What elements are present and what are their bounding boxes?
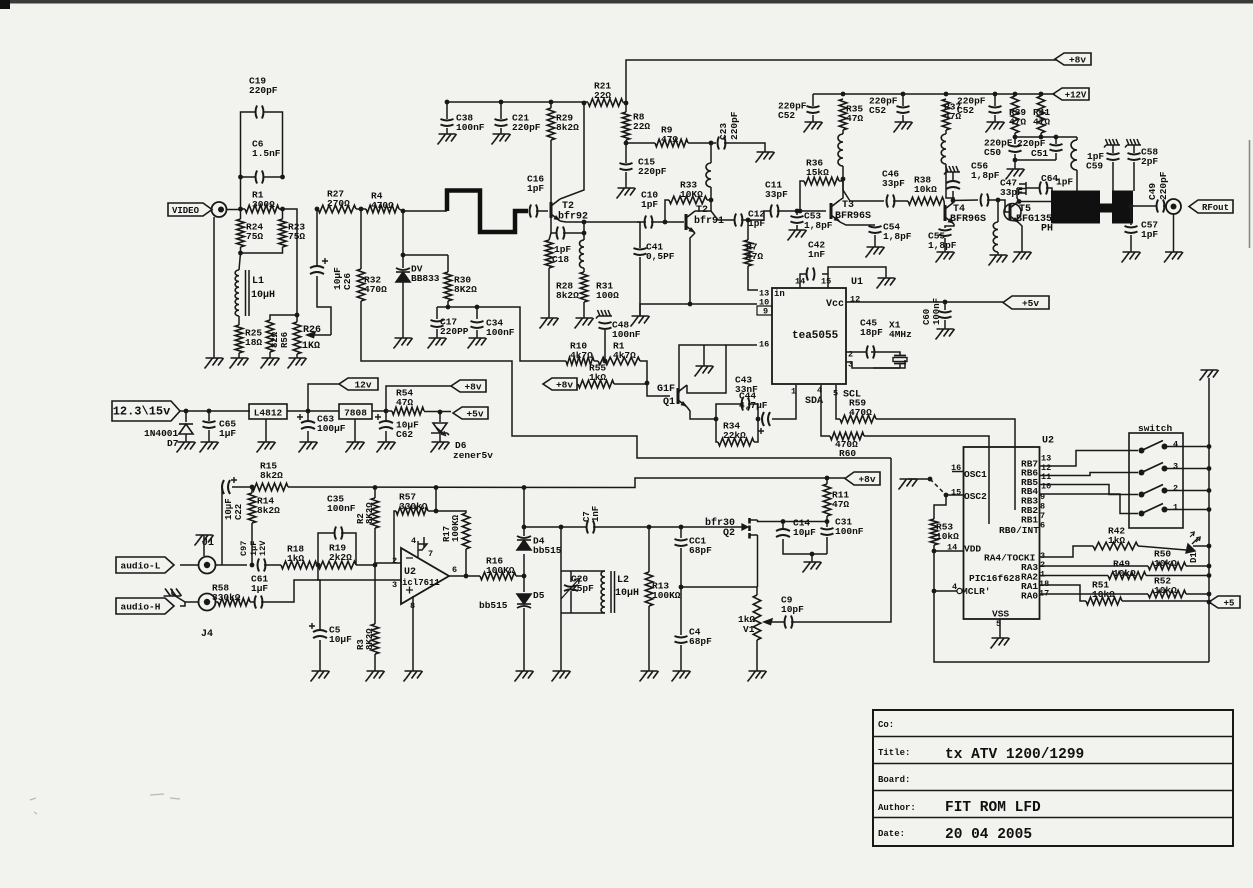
capacitor C47 33pF (981, 194, 989, 207)
ground J1 (195, 535, 214, 546)
svg-text:C60: C60 (922, 309, 932, 325)
svg-text:2: 2 (1173, 484, 1178, 494)
svg-text:100KΩ: 100KΩ (652, 590, 681, 601)
video pulse shape (447, 191, 528, 233)
svg-text:1,8pF: 1,8pF (928, 240, 957, 251)
wire SCL to RB2 (876, 419, 1015, 510)
junction (943, 300, 948, 305)
svg-text:U2: U2 (1042, 436, 1054, 447)
capacitor C56 1.8pF (946, 181, 960, 189)
junction (1129, 204, 1134, 209)
wire R57 to R17 (428, 511, 466, 513)
wire C9 to video line (791, 458, 891, 622)
transistor T5 circle (1004, 204, 1021, 221)
scan border top (0, 0, 1253, 4)
wire C18 left (551, 218, 556, 233)
wire gnd stub (703, 345, 705, 366)
wire (626, 142, 655, 144)
wire C64 left (1017, 187, 1022, 189)
video jack (212, 202, 227, 217)
wire X1 top (871, 352, 900, 356)
capacitor C49 220pF (1157, 200, 1165, 213)
svg-text:330kΩ: 330kΩ (399, 501, 428, 512)
transistor T4 BFR96S (945, 202, 954, 224)
svg-text:+8v: +8v (1069, 55, 1086, 66)
svg-text:68pF: 68pF (689, 636, 712, 647)
capacitor C60 100nF (939, 311, 952, 318)
ground R3 (366, 671, 385, 682)
resistor R57 330k (396, 507, 428, 515)
ground C65 (200, 442, 219, 453)
node supply 12v (339, 378, 378, 390)
resistor R49 10k (1108, 572, 1146, 580)
capacitor C14 10uF (776, 529, 790, 537)
wire sw 2 out (1183, 490, 1209, 492)
wire C11 to T3 (777, 210, 826, 212)
svg-text:OSC2: OSC2 (964, 491, 987, 502)
junction (756, 417, 761, 422)
junction (1013, 135, 1018, 140)
wire T4 emitter (945, 224, 954, 228)
wire (747, 220, 749, 240)
svg-text:10kΩ: 10kΩ (936, 531, 959, 542)
svg-text:RA0: RA0 (1021, 591, 1038, 602)
wire R13 top (648, 527, 650, 572)
ground C63 (299, 442, 318, 453)
junction (1207, 466, 1212, 471)
wire R32 top (360, 209, 362, 269)
wire (250, 601, 254, 603)
svg-text:8k2Ω: 8k2Ω (260, 470, 283, 481)
wire SDA to RB1 (864, 436, 989, 524)
ground C60 (936, 329, 955, 340)
ground C52c (986, 122, 1005, 133)
wire audio-L in (180, 564, 198, 566)
node supply +8v top (1055, 53, 1091, 65)
junction (1013, 92, 1018, 97)
wire (994, 115, 996, 122)
wire SDA down (821, 385, 830, 436)
svg-text:8: 8 (1040, 502, 1045, 512)
svg-text:220pF: 220pF (249, 85, 278, 96)
capacitor C17 220PP (431, 320, 444, 327)
wire (1014, 160, 1016, 169)
wire VDD (934, 550, 964, 552)
core L2 (611, 571, 615, 613)
ground RFout (1164, 252, 1183, 263)
wire R42 to D1 (1138, 546, 1186, 550)
wire sw 3 out (1183, 468, 1209, 470)
wire C64 to stripline (1046, 188, 1052, 193)
capacitor C23 220pF (718, 137, 726, 150)
junction (901, 92, 906, 97)
wire RA1 (1040, 585, 1087, 601)
ground U1 (877, 278, 896, 289)
wire (549, 233, 551, 240)
ground OSC (899, 479, 918, 490)
wire (241, 112, 256, 209)
svg-text:10µF: 10µF (793, 527, 816, 538)
capacitor C55 1.8pF (939, 229, 952, 236)
wire pin7 stub (423, 537, 425, 548)
capacitor C62 10uF (379, 421, 393, 429)
capacitor C38 100nF (441, 119, 454, 126)
wire C22 to R15 (232, 486, 252, 488)
wire D7 (185, 411, 187, 422)
ground V1 (748, 671, 767, 682)
wire D5 top (523, 576, 525, 592)
wire (536, 210, 548, 212)
svg-text:1.5nF: 1.5nF (252, 148, 281, 159)
svg-text:10: 10 (1041, 482, 1051, 492)
wire to C12 (711, 211, 734, 220)
wire to pin10 (690, 303, 757, 305)
wire (826, 478, 828, 484)
svg-text:MCLR': MCLR' (962, 586, 991, 597)
wire (402, 255, 404, 268)
svg-text:VIDEO: VIDEO (172, 206, 200, 216)
feedthrough C48 (596, 310, 612, 319)
wire rail tap (435, 488, 437, 512)
wire (1122, 600, 1209, 602)
wire (583, 233, 585, 240)
svg-text:C26: C26 (342, 273, 353, 290)
wire MCLR (934, 590, 957, 592)
wire (944, 320, 946, 329)
resistor R25 18 (235, 325, 243, 353)
capacitor C41 0.5pF (634, 248, 647, 255)
resistor R41 47 (1037, 96, 1045, 133)
wire (447, 301, 449, 307)
transistor T3 BFR96S (831, 200, 840, 222)
wire (707, 199, 711, 201)
wire (625, 140, 627, 163)
wire (563, 232, 584, 234)
switch pole 3 (1139, 470, 1145, 476)
ground C4 (672, 671, 691, 682)
svg-text:D5: D5 (533, 590, 545, 601)
switch box (1129, 433, 1183, 528)
svg-text:bfr91: bfr91 (694, 215, 724, 227)
capacitor C9 10pF (785, 616, 793, 629)
wire (1112, 145, 1114, 153)
wire pin16 to Q1 (687, 345, 757, 393)
wire (614, 383, 647, 385)
wire VSS gnd (999, 619, 1001, 638)
wire (241, 176, 256, 178)
svg-text:20 04 2005: 20 04 2005 (945, 827, 1032, 843)
capacitor C18 1pF (557, 227, 565, 240)
ground C38 (438, 134, 457, 145)
node supply +5v pwr (453, 407, 488, 419)
wire (1130, 235, 1132, 252)
wire rail bottom (1208, 602, 1210, 662)
capacitor C10 1pF (645, 216, 653, 229)
wire bottom rail (934, 545, 1209, 662)
wire (356, 208, 366, 210)
junction (582, 101, 587, 106)
wire gnd stub C14 (811, 554, 813, 562)
resistor R17 100K (462, 513, 470, 549)
wire (812, 115, 814, 122)
node supply +8v audio (845, 472, 880, 485)
wire video to modulator (361, 301, 891, 458)
wire (1026, 187, 1040, 189)
pin MCLR circle (957, 588, 962, 593)
wire C47 to T5 (987, 200, 1009, 212)
wire RA2 (1040, 575, 1109, 577)
svg-text:R56: R56 (280, 332, 290, 348)
svg-text:22Ω: 22Ω (594, 90, 611, 101)
inductor L7 (1071, 140, 1077, 170)
junction (401, 253, 406, 258)
wire pin15 to gnd (828, 267, 886, 278)
wire J4 gnd stub (172, 589, 185, 602)
junction (184, 409, 189, 414)
wire C35 left (318, 533, 334, 565)
wire pin14 (800, 274, 806, 288)
junction (295, 313, 300, 318)
wire DV top (403, 211, 448, 255)
op-amp U2 icl7611 (401, 548, 449, 604)
svg-text:7: 7 (1040, 511, 1045, 521)
wire emitter gnd (640, 304, 690, 316)
junction (280, 175, 285, 180)
junction (624, 101, 629, 106)
svg-text:OSC1: OSC1 (964, 469, 987, 480)
diode DV BB833 (396, 268, 410, 282)
svg-text:33pF: 33pF (882, 178, 905, 189)
wire (238, 353, 240, 358)
svg-text:1,8pF: 1,8pF (804, 220, 833, 231)
resistor R1 300 (245, 205, 279, 213)
junction (522, 525, 527, 530)
svg-text:4: 4 (411, 536, 416, 546)
capacitor C4 68pF (675, 636, 688, 643)
wire (436, 307, 438, 319)
junction (825, 476, 830, 481)
wire (796, 211, 798, 215)
svg-text:15: 15 (821, 277, 831, 287)
svg-text:Q2: Q2 (723, 528, 735, 539)
junction (306, 409, 311, 414)
wire R34 loop top (716, 404, 741, 419)
wire R2 top (374, 488, 376, 499)
resistor R51 10k (1086, 597, 1122, 605)
capacitor C58 2pF (1128, 153, 1141, 160)
junction (709, 141, 714, 146)
svg-text:12.3\15v: 12.3\15v (113, 405, 171, 419)
junction (795, 209, 800, 214)
wire (756, 587, 758, 595)
junction (1207, 600, 1212, 605)
svg-text:in: in (774, 289, 785, 299)
ground 7808 (346, 442, 365, 453)
wire C65 (208, 411, 210, 421)
wire T3 out (843, 179, 884, 201)
capacitor C50 220pF (1009, 145, 1022, 152)
svg-text:7: 7 (428, 549, 433, 559)
wire C26 top (316, 209, 318, 266)
junction (781, 519, 786, 524)
wire (583, 302, 585, 318)
resistor R31 100 (580, 272, 588, 302)
wire T5 emitter (1019, 223, 1022, 252)
svg-text:C52: C52 (869, 105, 886, 116)
svg-text:16: 16 (759, 340, 769, 350)
svg-text:Title:: Title: (878, 748, 910, 758)
ground R25 (230, 358, 249, 369)
stripline block 1 (1051, 191, 1100, 224)
wire SCL down (836, 385, 840, 419)
junction (238, 175, 243, 180)
junction (434, 509, 439, 514)
wire OSC2 in (946, 494, 964, 496)
wire (625, 172, 627, 188)
diode D5 bb515 (517, 594, 531, 608)
wire (476, 330, 478, 338)
junction (647, 525, 652, 530)
junction (559, 525, 564, 530)
wire (307, 431, 309, 442)
wire (583, 222, 585, 233)
wire C20 bottom (570, 591, 572, 613)
wire (625, 103, 627, 112)
svg-text:BB833: BB833 (411, 273, 440, 284)
wire (1186, 593, 1209, 595)
svg-text:100µF: 100µF (317, 423, 346, 434)
node supply +12V (1053, 88, 1089, 100)
wire C31 (826, 522, 828, 528)
wire R4 to pulse (399, 209, 447, 211)
junction (679, 585, 684, 590)
junction (238, 207, 243, 212)
junction (359, 207, 364, 212)
ground D7 (177, 442, 196, 453)
svg-text:8K2Ω: 8K2Ω (454, 284, 477, 295)
wire T3 collector (840, 179, 843, 200)
wire pin8 gnd (412, 596, 414, 671)
wire to R53 (934, 495, 946, 519)
wire (756, 640, 758, 671)
resistor R35 47 (839, 99, 847, 130)
wire (637, 221, 646, 223)
junction (944, 493, 949, 498)
feedthrough C59 (1104, 139, 1120, 148)
ground C5 (311, 671, 330, 682)
junction (522, 485, 527, 490)
wire (402, 282, 404, 338)
wire (1133, 145, 1135, 153)
inductor L2 (601, 571, 605, 613)
scan page edge (1249, 140, 1251, 248)
ic 7808 (339, 404, 372, 419)
resistor R19 2k2 (318, 561, 356, 569)
capacitor C15 220pF (620, 163, 633, 170)
wire R29 to T2 base (550, 140, 552, 209)
capacitor C22 10uF (222, 480, 230, 494)
wire (754, 419, 758, 442)
wire RB7 sw4 (1040, 451, 1139, 467)
wire pin3 (846, 362, 900, 368)
wire X1 bottom (899, 364, 901, 369)
svg-text:audio-L: audio-L (121, 561, 161, 572)
svg-text:12: 12 (850, 295, 860, 305)
wire (1076, 137, 1078, 140)
svg-text:L1: L1 (252, 276, 264, 287)
capacitor C57 1pF (1125, 226, 1138, 233)
ic U2 PIC16f628 (964, 447, 1040, 619)
junction (207, 409, 212, 414)
junction (445, 100, 450, 105)
wire pin2 riser (394, 511, 396, 563)
capacitor CC1 68pF (675, 539, 688, 546)
wire to C7 (524, 526, 586, 528)
node supply +5 (1209, 596, 1240, 608)
svg-text:+12V: +12V (1065, 91, 1087, 101)
svg-text:10µF: 10µF (329, 634, 352, 645)
wire (319, 640, 321, 671)
capacitor C34 100nF (471, 321, 484, 328)
junction (798, 209, 803, 214)
wire C17 C34 rail (437, 307, 566, 361)
wire (1014, 133, 1016, 137)
wire (639, 257, 641, 316)
svg-text:18Ω: 18Ω (245, 337, 262, 348)
stripline link (1100, 204, 1112, 213)
wire T5 collector (1017, 188, 1019, 201)
svg-text:2: 2 (848, 350, 853, 360)
svg-text:220pF: 220pF (638, 166, 667, 177)
capacitor C31 100nF (821, 528, 834, 535)
svg-text:1µF: 1µF (219, 428, 236, 439)
capacitor C45 18pF (867, 346, 875, 359)
svg-text:10kΩ: 10kΩ (914, 184, 937, 195)
svg-text:220pF: 220pF (1158, 171, 1169, 200)
junction (582, 220, 587, 225)
wire coil L3 (710, 143, 712, 163)
resistor R8 22 (622, 112, 630, 140)
svg-text:1µF: 1µF (251, 583, 268, 594)
wire (251, 487, 253, 493)
junction (250, 563, 255, 568)
capacitor C61 1uF (255, 596, 263, 609)
resistor R18 1k (281, 561, 317, 569)
wire (796, 225, 798, 230)
capacitor C5 10uF (313, 630, 327, 638)
junction (238, 251, 243, 256)
wire CC1 top (680, 527, 682, 538)
ground C21 (492, 134, 511, 145)
svg-text:10µF: 10µF (224, 498, 234, 520)
svg-text:68pF: 68pF (689, 545, 712, 556)
node supply +8v pwr (451, 380, 486, 392)
wire Q1 base (647, 384, 670, 396)
wire +5 rail (1208, 433, 1210, 602)
svg-text:1nF: 1nF (591, 506, 601, 522)
wire D4 bottom (523, 554, 525, 576)
wire (241, 247, 283, 253)
junction (746, 218, 751, 223)
svg-text:bb515: bb515 (533, 545, 562, 556)
resistor R29 8k2 (547, 108, 555, 140)
wire (296, 315, 298, 322)
ground video (205, 358, 224, 369)
resistor R27 270 (318, 205, 356, 213)
resistor V1 1k (753, 595, 761, 640)
wire (839, 180, 843, 182)
capacitor C65 1uF (203, 421, 216, 428)
